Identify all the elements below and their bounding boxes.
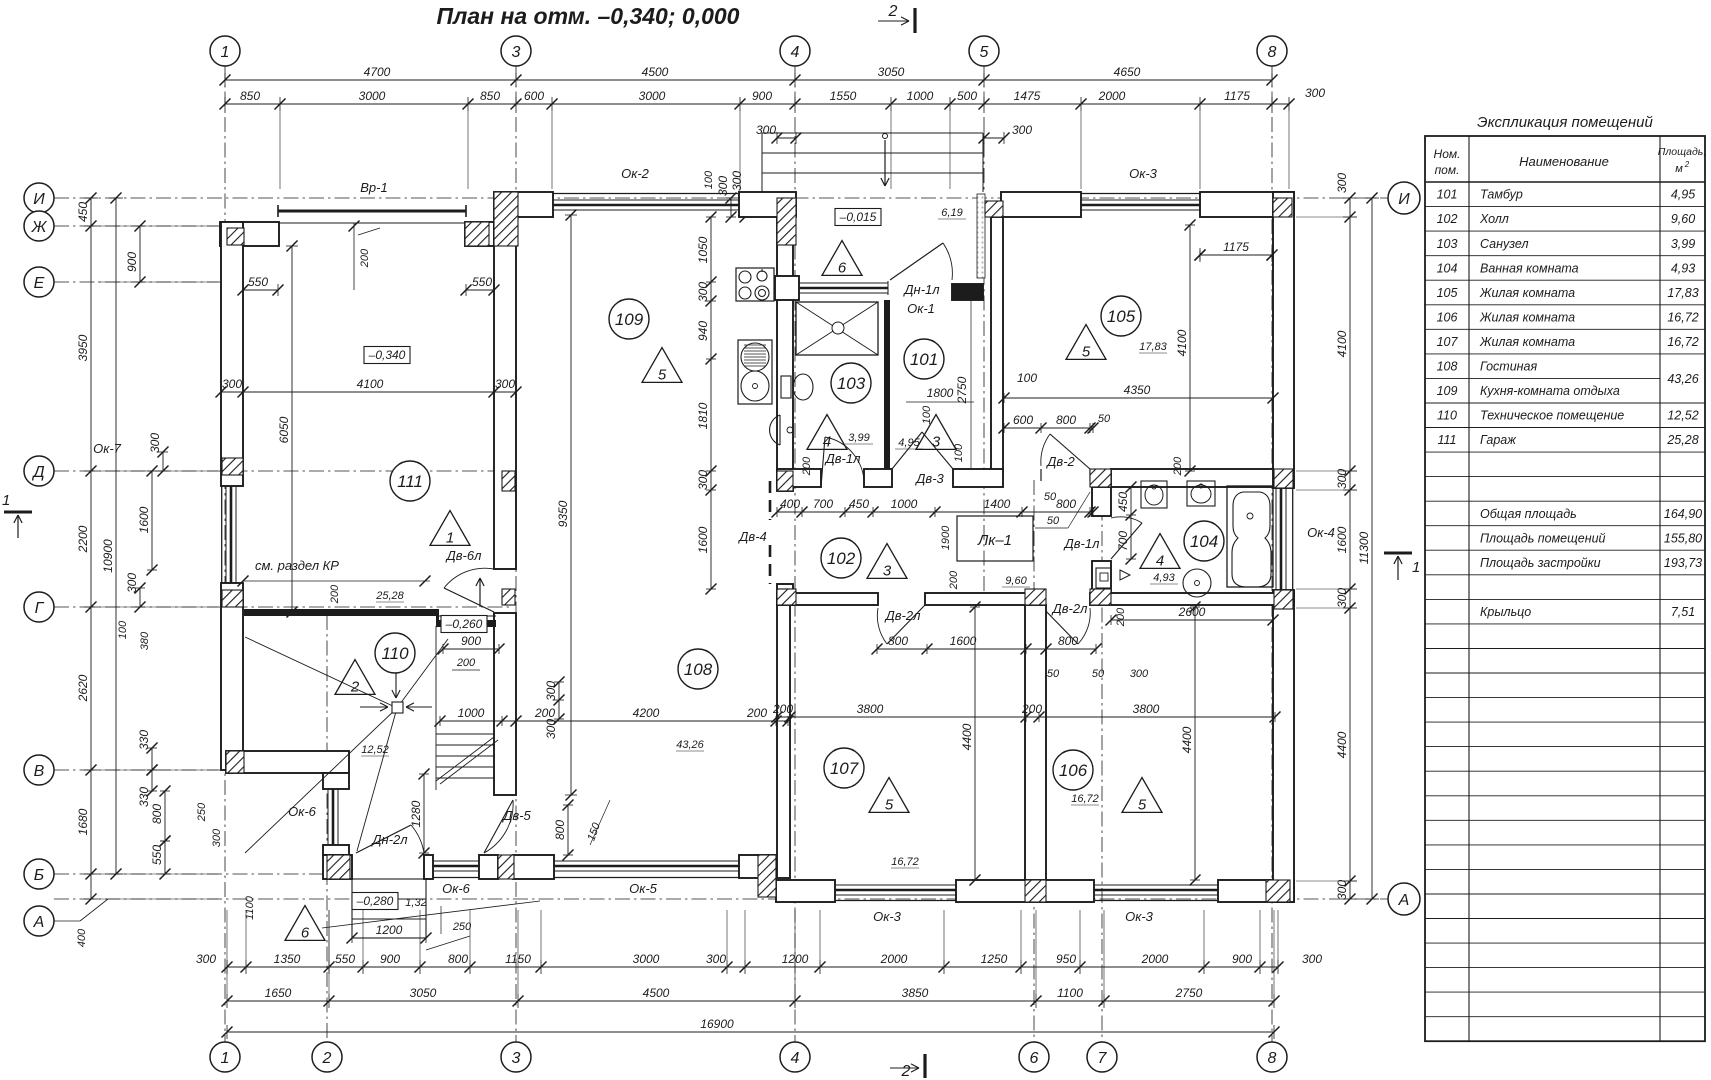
Дв-1л 104 leaf [1111, 523, 1142, 559]
svg-text:4400: 4400 [1180, 726, 1194, 753]
А band bottom wall [776, 880, 835, 902]
800/150 near Дв-5 [567, 805, 569, 855]
svg-text:900: 900 [380, 952, 400, 966]
svg-text:Дн-2л: Дн-2л [370, 832, 408, 847]
svg-text:1: 1 [221, 1050, 230, 1067]
svg-text:104: 104 [1190, 532, 1218, 551]
4100 vertical in 105 [1189, 225, 1191, 471]
svg-text:43,26: 43,26 [1667, 372, 1698, 386]
left 10900 chain [115, 198, 117, 874]
room 106 [1053, 750, 1093, 790]
room 102 [821, 538, 861, 578]
porch крыльцо bottom [352, 879, 426, 938]
right chain 300/4100/300/1600/300/4400/300 [1349, 198, 1351, 899]
kitchen stove [736, 268, 774, 301]
-0,280 and 1,32 [352, 893, 398, 910]
svg-text:Экспликация помещений: Экспликация помещений [1477, 114, 1653, 131]
window Ок-5 [554, 860, 739, 862]
svg-text:Площадь,: Площадь, [1658, 146, 1707, 158]
svg-text:5: 5 [885, 796, 894, 813]
svg-text:110: 110 [1437, 409, 1457, 423]
svg-text:330: 330 [137, 730, 151, 750]
svg-text:4200: 4200 [633, 706, 660, 720]
svg-text:Вр-1: Вр-1 [360, 180, 387, 195]
wall x323 В->Б with Ок-6 [323, 773, 349, 789]
svg-text:4,95: 4,95 [898, 437, 920, 449]
svg-text:Лк–1: Лк–1 [977, 532, 1012, 549]
svg-text:200: 200 [772, 702, 793, 716]
svg-text:100: 100 [1017, 371, 1037, 385]
section mark 1 left [4, 511, 32, 514]
svg-text:101: 101 [1437, 188, 1458, 202]
kitchen west wall x777 [777, 217, 793, 491]
svg-text:Тамбур: Тамбур [1480, 188, 1523, 202]
svg-text:см. раздел КР: см. раздел КР [255, 558, 339, 573]
svg-text:1: 1 [221, 44, 230, 61]
svg-text:4700: 4700 [364, 65, 391, 79]
svg-text:План на отм. –0,340; 0,000: План на отм. –0,340; 0,000 [437, 3, 740, 29]
550 dims garage top [243, 289, 278, 291]
svg-text:Гостиная: Гостиная [1480, 360, 1537, 374]
svg-text:800: 800 [1056, 497, 1076, 511]
svg-text:3000: 3000 [633, 952, 660, 966]
svg-text:Дв-2л: Дв-2л [884, 608, 921, 623]
svg-text:м: м [1675, 163, 1683, 175]
svg-text:800: 800 [1058, 634, 1078, 648]
svg-text:Дв-6л: Дв-6л [445, 548, 482, 563]
svg-text:2750: 2750 [1175, 986, 1203, 1000]
svg-text:1600: 1600 [696, 526, 710, 553]
partition 103|101 [884, 300, 890, 469]
svg-text:9350: 9350 [556, 500, 570, 527]
svg-text:Ок-1: Ок-1 [907, 301, 935, 316]
axis bubbles bottom [210, 1042, 240, 1072]
door Дн-1л leaf [890, 243, 943, 280]
svg-text:200: 200 [1021, 702, 1042, 716]
svg-text:1600: 1600 [137, 506, 151, 533]
svg-text:200: 200 [1172, 456, 1184, 476]
svg-text:4650: 4650 [1114, 65, 1141, 79]
window Ок-7 [225, 486, 227, 583]
svg-text:4500: 4500 [643, 986, 670, 1000]
svg-text:Ок-4: Ок-4 [1307, 525, 1335, 540]
svg-text:300: 300 [730, 171, 744, 191]
svg-text:4: 4 [823, 433, 831, 450]
svg-text:2000: 2000 [1098, 89, 1126, 103]
svg-text:4,93: 4,93 [1671, 261, 1695, 275]
svg-text:200: 200 [746, 706, 767, 720]
stairs in 110 [436, 733, 494, 735]
svg-text:200: 200 [359, 248, 371, 268]
svg-text:102: 102 [827, 549, 856, 568]
svg-text:1: 1 [1412, 559, 1420, 576]
svg-text:850: 850 [480, 89, 500, 103]
svg-text:108: 108 [684, 660, 713, 679]
svg-text:550: 550 [150, 845, 164, 865]
svg-text:Ок-3: Ок-3 [873, 909, 902, 924]
svg-text:Техническое помещение: Техническое помещение [1480, 409, 1624, 423]
window Ок-4 [1275, 488, 1277, 590]
svg-text:300: 300 [544, 681, 558, 701]
svg-text:50: 50 [1044, 491, 1057, 503]
svg-text:250: 250 [196, 802, 208, 822]
450 700 dims bath [1130, 487, 1132, 559]
room 108 [678, 649, 718, 689]
svg-text:107: 107 [1437, 335, 1459, 349]
garage interior dims 300/4100/300 [221, 391, 516, 393]
svg-text:16,72: 16,72 [1667, 310, 1698, 324]
svg-text:43,26: 43,26 [676, 739, 704, 751]
svg-text:1800: 1800 [927, 386, 954, 400]
svg-text:4,93: 4,93 [1153, 572, 1175, 584]
svg-text:4: 4 [791, 1050, 800, 1067]
Д band corridor wall [777, 469, 821, 487]
vent shaft with X [796, 302, 878, 355]
svg-text:Ок-7: Ок-7 [93, 441, 122, 456]
bathtub 104 [1227, 486, 1273, 587]
svg-text:1280: 1280 [409, 800, 423, 827]
svg-text:1: 1 [446, 529, 454, 546]
room 105 [1101, 296, 1141, 336]
left exterior wall [221, 222, 243, 486]
svg-text:330: 330 [137, 787, 151, 807]
svg-text:200: 200 [1115, 607, 1127, 627]
svg-text:Дн-1л: Дн-1л [902, 282, 940, 297]
step -0,260 lines [438, 615, 496, 617]
svg-text:–0,280: –0,280 [356, 894, 394, 908]
extension lines right chain [1296, 216, 1357, 218]
svg-text:100: 100 [703, 170, 715, 189]
svg-text:1,32: 1,32 [405, 897, 426, 909]
svg-text:3: 3 [512, 1050, 521, 1067]
svg-text:109: 109 [1437, 384, 1458, 398]
svg-text:3000: 3000 [359, 89, 386, 103]
svg-text:Дв-5: Дв-5 [501, 808, 531, 823]
svg-text:111: 111 [397, 472, 423, 491]
svg-text:300: 300 [1012, 123, 1032, 137]
svg-text:Дв-2л: Дв-2л [1051, 601, 1088, 616]
svg-text:200: 200 [801, 456, 813, 476]
600 800 50 dims over 104 [1004, 427, 1093, 429]
exterior wall: И top band [494, 192, 553, 217]
svg-text:1250: 1250 [981, 952, 1008, 966]
svg-text:Дв-2: Дв-2 [1045, 454, 1075, 469]
gate Вр-1 leaf [278, 210, 466, 213]
svg-text:300: 300 [495, 377, 515, 391]
svg-text:1100: 1100 [1057, 986, 1083, 1000]
svg-text:3800: 3800 [857, 702, 884, 716]
svg-text:Жилая комната: Жилая комната [1479, 335, 1575, 349]
right exterior wall [1273, 192, 1294, 488]
svg-text:Г: Г [35, 600, 45, 617]
room 109 [609, 299, 649, 339]
node square 110 [392, 702, 403, 713]
svg-text:500: 500 [957, 89, 977, 103]
basins 104 [1141, 481, 1167, 508]
outer face lines across bottom windows [835, 900, 956, 902]
svg-text:550: 550 [248, 275, 268, 289]
svg-text:400: 400 [76, 928, 88, 947]
outer face line across Ок-7 and Ок-4 [221, 486, 223, 583]
svg-text:109: 109 [615, 310, 644, 329]
svg-text:1550: 1550 [830, 89, 857, 103]
svg-text:1475: 1475 [1014, 89, 1041, 103]
svg-text:3: 3 [932, 433, 941, 450]
svg-text:25,28: 25,28 [375, 590, 404, 602]
svg-text:25,28: 25,28 [1666, 433, 1698, 447]
svg-text:Дв-1л: Дв-1л [1063, 536, 1100, 551]
9350 vertical [570, 215, 572, 795]
svg-text:600: 600 [1013, 413, 1033, 427]
round basin 104 [1183, 569, 1211, 597]
Дв-2л leaf 107 [887, 605, 925, 644]
svg-text:950: 950 [1056, 952, 1076, 966]
svg-text:Жилая комната: Жилая комната [1479, 286, 1575, 300]
svg-text:Санузел: Санузел [1480, 237, 1529, 251]
svg-text:200: 200 [456, 657, 476, 669]
svg-text:5: 5 [980, 44, 989, 61]
svg-text:105: 105 [1107, 307, 1136, 326]
svg-text:1400: 1400 [984, 497, 1011, 511]
svg-text:800: 800 [888, 634, 908, 648]
Дв-3 leaf [892, 432, 922, 469]
svg-text:Ж: Ж [31, 219, 48, 236]
window dim 1175 right top [1200, 254, 1272, 256]
bathroom west wall x1092 [1092, 487, 1111, 516]
chain 1000/200/4200/200 [440, 720, 788, 722]
svg-text:Ок-6: Ок-6 [288, 804, 317, 819]
svg-text:6050: 6050 [277, 416, 291, 443]
svg-text:800: 800 [150, 804, 164, 824]
door Дн-2л leaf [356, 825, 411, 853]
svg-text:300: 300 [1305, 86, 1325, 100]
svg-text:103: 103 [837, 374, 866, 393]
entrance steps top [761, 133, 763, 192]
axis bubbles top [210, 36, 240, 66]
room 101 [904, 339, 944, 379]
svg-text:2620: 2620 [76, 674, 90, 702]
svg-text:300: 300 [1130, 668, 1149, 680]
svg-text:2600: 2600 [1178, 605, 1206, 619]
left minor dims [139, 226, 141, 282]
svg-text:1810: 1810 [696, 402, 710, 429]
svg-text:900: 900 [125, 252, 139, 272]
svg-text:105: 105 [1437, 286, 1458, 300]
svg-text:106: 106 [1059, 761, 1088, 780]
svg-text:50: 50 [1047, 515, 1060, 527]
svg-text:Холл: Холл [1479, 212, 1509, 226]
1175 dim in 105 [1200, 254, 1272, 256]
svg-text:Наименование: Наименование [1519, 154, 1609, 169]
svg-text:1000: 1000 [891, 497, 918, 511]
svg-text:550: 550 [335, 952, 355, 966]
svg-text:6,19: 6,19 [941, 207, 962, 219]
axis bubbles left [24, 183, 54, 213]
porch south band: Ок-1 + Дн-1л [775, 276, 799, 300]
svg-text:3050: 3050 [410, 986, 437, 1000]
svg-text:300: 300 [211, 828, 223, 847]
svg-text:9,60: 9,60 [1005, 575, 1027, 587]
svg-text:1650: 1650 [265, 986, 292, 1000]
дим 900/200 near -0,260 [443, 648, 499, 650]
axis grid lines [224, 66, 226, 1042]
svg-text:2750: 2750 [955, 376, 969, 404]
Б band bottom wall [323, 855, 352, 879]
svg-text:6: 6 [838, 259, 847, 276]
window Ок-3 top [1081, 199, 1200, 201]
svg-text:300: 300 [696, 470, 710, 490]
svg-text:4100: 4100 [1335, 330, 1349, 357]
svg-text:4100: 4100 [1175, 329, 1189, 356]
diagonals room 110 [245, 637, 397, 708]
svg-text:940: 940 [696, 321, 710, 341]
svg-text:900: 900 [752, 89, 772, 103]
svg-text:4400: 4400 [960, 723, 974, 750]
svg-text:4400: 4400 [1335, 731, 1349, 758]
svg-text:800: 800 [553, 820, 567, 840]
svg-text:–0,340: –0,340 [368, 348, 406, 362]
svg-text:3050: 3050 [878, 65, 905, 79]
svg-text:Крыльцо: Крыльцо [1480, 605, 1531, 619]
svg-text:Общая площадь: Общая площадь [1480, 507, 1577, 521]
room 103 [831, 363, 871, 403]
outer face lines across windows [553, 193, 739, 195]
svg-text:300: 300 [756, 123, 776, 137]
svg-text:900: 900 [1232, 952, 1252, 966]
svg-text:103: 103 [1437, 237, 1458, 251]
svg-text:300: 300 [196, 952, 216, 966]
2600 dim [1111, 619, 1273, 621]
svg-text:1900: 1900 [940, 525, 952, 550]
svg-text:Е: Е [34, 275, 45, 292]
svg-text:100: 100 [117, 620, 129, 639]
axis bubbles right [1388, 182, 1420, 214]
extension lines top chain to walls [279, 111, 281, 189]
svg-text:3: 3 [883, 562, 892, 579]
svg-text:5: 5 [1138, 796, 1147, 813]
svg-text:1600: 1600 [950, 634, 977, 648]
svg-text:И: И [1398, 191, 1410, 208]
svg-text:1600: 1600 [1335, 526, 1349, 553]
svg-text:11300: 11300 [1357, 531, 1371, 564]
toilet 103 [793, 374, 813, 400]
svg-text:800: 800 [1056, 413, 1076, 427]
svg-text:300: 300 [696, 282, 710, 302]
svg-text:700: 700 [1116, 531, 1130, 551]
svg-text:104: 104 [1437, 261, 1458, 275]
svg-text:8: 8 [1268, 44, 1277, 61]
svg-text:164,90: 164,90 [1664, 507, 1702, 521]
svg-text:108: 108 [1437, 360, 1458, 374]
svg-text:2000: 2000 [880, 952, 908, 966]
section mark 1 right [1384, 552, 1412, 555]
svg-text:В: В [34, 763, 45, 780]
svg-text:155,80: 155,80 [1664, 531, 1702, 545]
svg-text:4: 4 [791, 44, 800, 61]
svg-text:300: 300 [1335, 469, 1349, 489]
svg-text:300: 300 [1335, 880, 1349, 900]
Дв-2 opening + leaf [1040, 469, 1042, 481]
svg-text:12,52: 12,52 [361, 744, 389, 756]
bottom dim chain axes [227, 1000, 1274, 1002]
triangles [822, 241, 862, 276]
svg-text:4100: 4100 [357, 377, 384, 391]
svg-text:Дв-4: Дв-4 [737, 529, 767, 544]
svg-text:3,99: 3,99 [1671, 237, 1695, 251]
svg-text:550: 550 [472, 275, 492, 289]
svg-text:3800: 3800 [1133, 702, 1160, 716]
svg-text:Кухня-комната отдыха: Кухня-комната отдыха [1480, 384, 1620, 398]
svg-text:300: 300 [544, 719, 558, 739]
extension lines bottom chain to walls [245, 910, 247, 960]
svg-text:2: 2 [350, 678, 360, 695]
svg-text:380: 380 [139, 631, 151, 650]
windows Ок-3 bottom [835, 884, 956, 886]
svg-text:107: 107 [830, 759, 859, 778]
svg-text:193,73: 193,73 [1664, 556, 1702, 570]
svg-text:А: А [33, 914, 45, 931]
svg-text:Ок-3: Ок-3 [1125, 909, 1154, 924]
wall garage|110 [244, 609, 438, 616]
svg-text:450: 450 [76, 202, 90, 222]
svg-text:250: 250 [452, 921, 472, 933]
svg-text:6: 6 [1030, 1050, 1039, 1067]
svg-text:300: 300 [1335, 173, 1349, 193]
svg-text:50: 50 [1098, 413, 1111, 425]
Дв-4 opening (leaf shown as dashes) [777, 490, 793, 492]
extension lines left chains [98, 225, 218, 227]
sink 103 [770, 415, 780, 445]
svg-text:Ванная комната: Ванная комната [1480, 261, 1579, 275]
svg-text:Ном.: Ном. [1434, 147, 1461, 161]
svg-text:800: 800 [448, 952, 468, 966]
svg-text:16,72: 16,72 [1667, 335, 1698, 349]
svg-text:50: 50 [1047, 668, 1060, 680]
door closer device [1096, 568, 1111, 588]
svg-text:3850: 3850 [902, 986, 929, 1000]
svg-text:Ок-5: Ок-5 [629, 881, 658, 896]
svg-text:100: 100 [921, 405, 933, 424]
corner block Б->А step [739, 855, 776, 878]
svg-text:3: 3 [512, 44, 521, 61]
svg-text:200: 200 [329, 584, 341, 604]
svg-text:900: 900 [461, 634, 481, 648]
svg-text:3950: 3950 [76, 334, 90, 361]
room 111 [390, 461, 430, 501]
svg-text:300: 300 [1302, 952, 1322, 966]
svg-text:5: 5 [1082, 343, 1091, 360]
svg-text:17,83: 17,83 [1139, 341, 1167, 353]
bottom dim chain small [227, 966, 1278, 968]
svg-text:2: 2 [1684, 160, 1690, 169]
svg-text:6: 6 [301, 924, 310, 941]
porch dims 1200 250 [352, 937, 426, 939]
svg-text:2: 2 [901, 1063, 911, 1080]
porch east wall + 101 east wall [977, 194, 985, 278]
window Ок-6 bottom [433, 860, 479, 862]
svg-text:450: 450 [1116, 492, 1130, 512]
room 110 [375, 633, 415, 673]
svg-text:1050: 1050 [696, 236, 710, 263]
svg-text:Площадь застройки: Площадь застройки [1480, 556, 1601, 570]
dims hall: 400 700 450 1000 1400 800 50 [777, 511, 1093, 513]
window Ок-2 [553, 199, 739, 201]
wall hatch piers [494, 192, 518, 246]
svg-text:300: 300 [222, 377, 242, 391]
svg-text:1350: 1350 [274, 952, 301, 966]
4400 verticals [974, 607, 976, 880]
svg-text:300: 300 [148, 433, 162, 453]
